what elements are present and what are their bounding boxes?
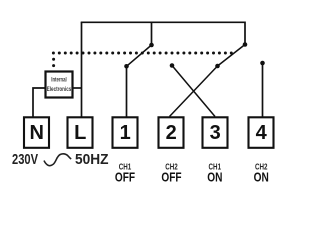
- terminal 2 box: [159, 117, 184, 148]
- wire from SW2 throw contact diagonally down to terminal 2: [170, 66, 218, 117]
- svg-text:3: 3: [210, 122, 221, 144]
- terminal 4 box: [249, 117, 274, 148]
- switch SW1 arm (CH1, thrown to OFF): [127, 45, 152, 66]
- svg-text:L: L: [74, 122, 86, 144]
- wire tap from top bus to switch SW1 fixed contact: [151, 22, 153, 45]
- AC sine symbol: [44, 154, 71, 166]
- svg-text:Electronics: Electronics: [47, 86, 72, 93]
- node SW2 ON throw contact (terminal 4): [260, 61, 265, 66]
- svg-text:N: N: [29, 122, 43, 144]
- internal electronics box U1: [46, 72, 73, 98]
- svg-text:Internal: Internal: [51, 77, 67, 84]
- terminal 3 box: [203, 117, 228, 148]
- wire from SW1 ON contact diagonally down to terminal 3: [172, 66, 215, 117]
- dotted control line horizontal from internal electronics to switches: [52, 52, 233, 55]
- dotted control line vertical down to internal electronics box: [52, 58, 55, 67]
- node SW2 throw contact (terminal 2): [215, 64, 220, 69]
- svg-text:230V: 230V: [12, 152, 38, 168]
- svg-text:OFF: OFF: [161, 169, 181, 184]
- wire right drop from top bus to switch SW2 fixed contact: [244, 22, 246, 45]
- svg-text:1: 1: [120, 122, 131, 144]
- svg-text:OFF: OFF: [115, 169, 135, 184]
- svg-text:4: 4: [256, 122, 268, 144]
- svg-text:ON: ON: [207, 169, 222, 184]
- wire from terminal N up and right to internal electronics left pin: [33, 88, 45, 117]
- node SW2 fixed contact: [243, 42, 248, 47]
- wire top bus horizontal: [81, 21, 245, 23]
- wire L feed vertical from terminal L up to top bus: [81, 22, 83, 116]
- node SW1 throw contact (terminal 1): [124, 64, 129, 69]
- node SW1 fixed contact: [149, 43, 154, 48]
- svg-text:50HZ: 50HZ: [75, 152, 109, 168]
- svg-text:2: 2: [166, 122, 177, 144]
- terminal N box: [24, 117, 49, 148]
- wire from SW2 ON contact down to terminal 4: [262, 63, 264, 117]
- wire from internal electronics right pin to L feed line: [74, 87, 82, 89]
- terminal 1 box: [113, 117, 138, 148]
- wire from SW1 throw contact down to terminal 1: [126, 66, 128, 116]
- terminal L box: [68, 117, 93, 148]
- switch SW2 arm (CH2, thrown to OFF): [218, 45, 246, 67]
- svg-text:ON: ON: [254, 169, 269, 184]
- node SW1 ON throw contact (terminal 3): [170, 63, 175, 68]
